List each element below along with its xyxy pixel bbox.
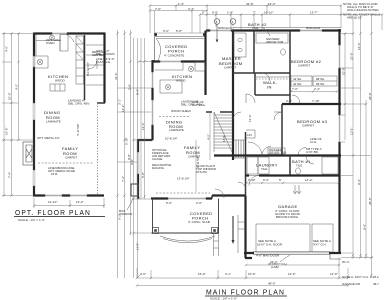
svg-text:23'-4": 23'-4" [270, 260, 278, 264]
window family bottom [168, 197, 206, 199]
fridge [60, 35, 68, 52]
svg-text:5'-0": 5'-0" [166, 201, 172, 205]
svg-text:WOOD: WOOD [55, 79, 65, 83]
svg-text:4'-2": 4'-2" [207, 134, 211, 140]
svg-text:23'-0": 23'-0" [350, 52, 354, 60]
svg-text:9'-0" CLG.: 9'-0" CLG. [192, 103, 206, 107]
dim line bottom [34, 198, 104, 208]
svg-text:4" CONC. SLAB: 4" CONC. SLAB [188, 220, 210, 224]
bottom dimension rows (main plan) [136, 256, 379, 286]
svg-text:5": 5" [279, 178, 282, 182]
svg-text:13'-8 1/4": 13'-8 1/4" [177, 177, 190, 181]
top dimension rows [149, 2, 383, 36]
svg-text:7'-4": 7'-4" [121, 176, 125, 182]
connector ticks [133, 62, 153, 234]
between-plans dimension column [96, 30, 153, 278]
svg-text:38'-0": 38'-0" [368, 197, 372, 205]
wall left (left plan) [33, 33, 35, 196]
ticks [136, 277, 349, 279]
fireplace bump [23, 142, 34, 165]
porch column dots [154, 33, 157, 36]
svg-text:LIN.: LIN. [247, 133, 253, 137]
svg-text:WOOD SHELF: WOOD SHELF [171, 109, 191, 113]
svg-text:FLAT CLG.: FLAT CLG. [96, 60, 111, 64]
svg-text:14'-0": 14'-0" [288, 272, 296, 276]
wall right upper kitchen side [103, 33, 105, 104]
connectors [118, 88, 153, 162]
hall door arcs [246, 94, 255, 103]
svg-text:LAMINATE: LAMINATE [46, 120, 61, 124]
range symbol [50, 35, 55, 40]
front walkway [214, 233, 219, 256]
svg-text:DRYER TUB: DRYER TUB [269, 151, 286, 155]
svg-text:4'-0": 4'-0" [140, 272, 146, 276]
garage corner notch [330, 254, 341, 259]
svg-text:14'-0": 14'-0" [330, 272, 338, 276]
bath2 fixtures [256, 33, 288, 43]
window top wall [52, 32, 67, 34]
door arc bed2 [292, 95, 300, 103]
window left family [137, 152, 139, 174]
stairs lower flight [234, 140, 245, 158]
svg-text:11'-6": 11'-6" [350, 128, 354, 135]
svg-text:3'-0": 3'-0" [286, 99, 292, 103]
washer note box [268, 148, 285, 154]
window bottom wall 2 [70, 194, 87, 196]
svg-text:6'-0": 6'-0" [212, 11, 218, 15]
kitchen bottom cabinets / landing [50, 84, 65, 91]
covered porch 2 [152, 199, 220, 234]
svg-text:14'-2": 14'-2" [305, 178, 313, 182]
svg-text:13'-4": 13'-4" [141, 122, 145, 130]
garage door outline 9x7 [312, 224, 333, 252]
svg-text:OPT. FLOOR PLAN: OPT. FLOOR PLAN [15, 208, 91, 217]
svg-text:CARPET: CARPET [65, 156, 77, 160]
kitchen tall cabinet column [76, 36, 84, 84]
step out family room [138, 139, 153, 141]
pantry shelving [86, 45, 104, 85]
dim lines [345, 15, 372, 278]
svg-text:CARPET: CARPET [298, 64, 310, 68]
ticks [116, 32, 131, 234]
front door arc [215, 189, 224, 198]
right bottom dims [341, 257, 373, 259]
left dimension column (main plan) [130, 38, 153, 278]
kitchen cabinets [155, 62, 183, 71]
svg-text:6'-11 5/8": 6'-11 5/8" [196, 156, 200, 168]
svg-text:16'-4": 16'-4" [357, 42, 361, 50]
svg-text:12'-10": 12'-10" [48, 200, 57, 204]
right dimension column [341, 15, 373, 278]
svg-text:9'-4": 9'-4" [363, 224, 367, 230]
wall right (main plan) [338, 29, 340, 254]
svg-text:14'-2": 14'-2" [121, 104, 125, 112]
svg-text:TILE: TILE [261, 167, 267, 171]
svg-text:31'-4": 31'-4" [114, 72, 118, 80]
stairs upper flight [214, 112, 233, 152]
garage bottom wall [244, 252, 341, 254]
arch to porch corner [66, 34, 74, 42]
ticks [3, 32, 20, 196]
svg-text:7'-10": 7'-10" [312, 99, 320, 103]
svg-text:1-38.2: 1-38.2 [370, 275, 379, 279]
svg-text:LAMINATE: LAMINATE [169, 128, 184, 132]
dashed clg line dining [159, 116, 190, 118]
svg-text:ATS-PD: ATS-PD [196, 170, 208, 174]
wall hall top [233, 72, 290, 74]
garage left wall [245, 196, 252, 258]
svg-text:68 SH: 68 SH [316, 82, 324, 86]
svg-text:3'-10": 3'-10" [248, 178, 256, 182]
kitchen/master divider [204, 31, 206, 96]
svg-text:ABOVE TUB: ABOVE TUB [266, 40, 283, 44]
section leader [232, 216, 234, 241]
dim lines [4, 33, 19, 195]
laundry door arc [248, 142, 262, 156]
svg-text:42 SH: 42 SH [293, 82, 301, 86]
svg-text:16 R.: 16 R. [222, 135, 226, 142]
dim line row3 [200, 14, 382, 16]
garage side step [238, 215, 246, 253]
window left wall dining [33, 103, 35, 120]
closet shelves bed2 [291, 76, 312, 86]
wall top (main plan) [206, 29, 341, 31]
svg-text:CARPET: CARPET [224, 66, 236, 70]
title MAIN FLOOR PLAN [205, 288, 287, 300]
svg-text:3'-1": 3'-1" [118, 99, 122, 105]
ticks [344, 32, 373, 276]
tag 1 [230, 19, 236, 25]
washer dryer [247, 157, 258, 174]
svg-text:28'-8": 28'-8" [368, 92, 372, 100]
tag 2 [214, 19, 220, 25]
svg-text:DBL. DOORS: DBL. DOORS [96, 52, 115, 56]
garage door outline 16x7 [256, 224, 310, 252]
svg-text:5'-10": 5'-10" [125, 137, 129, 145]
dim line bed2 [291, 91, 337, 93]
kitchen top wall w/ window [153, 60, 206, 62]
window master top [210, 29, 231, 31]
sink peninsula [34, 56, 48, 68]
svg-text:16 R.: 16 R. [51, 172, 58, 176]
svg-text:16'X7' O.H. DOOR: 16'X7' O.H. DOOR [257, 243, 283, 247]
svg-text:16'-4": 16'-4" [268, 2, 276, 6]
svg-text:(LAB): (LAB) [271, 265, 279, 269]
laundry top wall [214, 154, 341, 156]
kitchen island (main) [160, 80, 182, 93]
svg-text:4'-2": 4'-2" [15, 84, 19, 90]
dim line [137, 277, 348, 279]
svg-text:HIGH UNLESS NOTED: HIGH UNLESS NOTED [347, 8, 380, 12]
svg-text:2'-4": 2'-4" [314, 87, 320, 91]
svg-text:CLG.: CLG. [310, 140, 317, 144]
wall bath2 left [253, 31, 255, 74]
svg-text:WOOD: WOOD [176, 79, 186, 83]
svg-text:1'-3": 1'-3" [178, 2, 184, 6]
svg-text:42'-8": 42'-8" [246, 2, 254, 6]
window bed3 right [338, 115, 340, 142]
svg-text:16'-8": 16'-8" [5, 127, 9, 135]
bedroom3 left wall [281, 104, 283, 156]
svg-text:38.7: 38.7 [373, 282, 379, 286]
box window [131, 184, 138, 196]
svg-text:3'-7": 3'-7" [188, 7, 194, 11]
ticks [149, 4, 383, 15]
svg-text:ARE @ 16": ARE @ 16" [347, 16, 362, 20]
master bottom wall [206, 111, 233, 113]
wall right lower existing dotted [97, 103, 99, 195]
wall bottom (left plan) [33, 194, 104, 196]
svg-text:42 SH: 42 SH [293, 77, 301, 81]
notes top right [343, 2, 380, 20]
svg-text:13'-2": 13'-2" [76, 200, 84, 204]
walk-in closet bed2 [255, 73, 290, 95]
svg-text:9'-8": 9'-8" [130, 159, 134, 165]
svg-text:1'-8": 1'-8" [227, 11, 233, 15]
dashed clg line family [38, 162, 94, 164]
svg-text:2'-6": 2'-6" [196, 201, 202, 205]
wall step at pantry [97, 102, 105, 104]
svg-text:BROOM FINISH: BROOM FINISH [276, 215, 298, 219]
svg-text:9'-4": 9'-4" [357, 179, 361, 185]
main left wall [151, 60, 153, 140]
svg-text:10'-5": 10'-5" [8, 92, 12, 100]
svg-text:OPT. METAL F.P.: OPT. METAL F.P. [37, 136, 60, 140]
svg-text:4'-6": 4'-6" [5, 46, 9, 52]
dim lines [134, 38, 145, 278]
svg-text:5050 EGR.: 5050 EGR. [306, 26, 321, 30]
svg-text:5'-0": 5'-0" [163, 29, 169, 33]
window bed2 right [338, 45, 340, 68]
dim line row2 [150, 10, 207, 12]
door arc right wall [88, 60, 97, 69]
svg-text:5'-8": 5'-8" [176, 29, 182, 33]
svg-text:4'-11 5/8": 4'-11 5/8" [76, 124, 80, 136]
dashed seat line [156, 192, 210, 194]
svg-text:13'-7": 13'-7" [310, 11, 318, 15]
svg-text:W.I.C.: W.I.C. [342, 260, 350, 264]
svg-text:SCALE : 1/4" = 1'-0": SCALE : 1/4" = 1'-0" [210, 296, 237, 300]
door to garage arc [238, 182, 246, 190]
window left dining [151, 100, 153, 125]
svg-text:11'-0": 11'-0" [136, 243, 140, 250]
svg-text:5'-4": 5'-4" [136, 89, 140, 95]
svg-text:16'-10": 16'-10" [264, 11, 273, 15]
svg-text:WINDOW: WINDOW [119, 212, 132, 216]
window left wall family [33, 170, 35, 186]
svg-text:DBL. DRS. ABV.: DBL. DRS. ABV. [68, 102, 90, 106]
svg-text:3'-1": 3'-1" [225, 272, 231, 276]
porch1 edges [155, 37, 207, 62]
overall dim [137, 285, 348, 287]
svg-text:5": 5" [202, 11, 205, 15]
window bed2 top [300, 29, 322, 31]
wall top (left plan) [34, 32, 105, 34]
svg-text:9'X7' O.H.: 9'X7' O.H. [313, 243, 327, 247]
svg-text:4'-6" MAN DOOR: 4'-6" MAN DOOR [256, 254, 280, 258]
svg-text:TILE: TILE [296, 164, 302, 168]
svg-text:SCALE : 1/4" = 1'-0": SCALE : 1/4" = 1'-0" [18, 218, 45, 222]
porch step curve [160, 236, 215, 243]
svg-text:GYP. BD.: GYP. BD. [306, 150, 319, 154]
bath1 fixtures [296, 168, 301, 174]
window bottom wall 1 [45, 194, 62, 196]
svg-text:MAIN FLOOR PLAN: MAIN FLOOR PLAN [206, 288, 285, 297]
porch1 arch [156, 39, 161, 61]
left dimension column (left plan) [2, 32, 34, 196]
svg-text:9'-0": 9'-0" [263, 178, 269, 182]
kitchen interior wall [84, 35, 86, 100]
window left kitchen [151, 72, 153, 88]
laundry / bath1 divider [289, 156, 291, 176]
wall bottom family room [151, 196, 246, 199]
svg-text:10'-0": 10'-0" [248, 272, 256, 276]
window left wall kitchen [33, 56, 35, 67]
svg-text:10'-8 1/4": 10'-8 1/4" [165, 137, 178, 141]
svg-text:RAILING: RAILING [152, 166, 165, 170]
svg-text:TILE: TILE [252, 26, 258, 30]
svg-text:7'-0": 7'-0" [155, 7, 161, 11]
svg-text:CHASE: CHASE [152, 157, 162, 161]
svg-text:2'-8": 2'-8" [128, 84, 132, 90]
svg-text:7'-4": 7'-4" [8, 172, 12, 178]
ticks [132, 60, 145, 277]
dim lines [118, 30, 131, 278]
kitchen counters top [36, 35, 60, 57]
svg-text:NOTE A: 16X7 O.H.: NOTE A: 16X7 O.H. [342, 275, 369, 279]
wall bath2 right / bed2 left [289, 31, 291, 104]
svg-text:7'-0": 7'-0" [292, 87, 298, 91]
svg-text:16'-0": 16'-0" [198, 272, 206, 276]
svg-text:4" CONCRETE: 4" CONCRETE [164, 54, 184, 58]
stair well wall [245, 132, 247, 196]
svg-text:5'-8": 5'-8" [141, 172, 145, 178]
bedroom3 top wall [282, 103, 341, 105]
dim line row1 [150, 5, 341, 7]
svg-text:OVEN: OVEN [46, 41, 55, 45]
svg-text:CARPET: CARPET [302, 124, 314, 128]
svg-text:5050 EGR.: 5050 EGR. [218, 26, 233, 30]
svg-text:IN: IN [267, 85, 272, 90]
garage slope arrows [293, 185, 301, 194]
garage top wall [246, 174, 340, 176]
svg-text:GARAGE DR.: GARAGE DR. [342, 282, 361, 286]
svg-text:12'-4": 12'-4" [248, 114, 252, 122]
extension lines [150, 6, 382, 37]
svg-text:68 SH: 68 SH [316, 77, 324, 81]
master bedroom right wall [232, 31, 234, 161]
svg-text:48'-0": 48'-0" [268, 282, 276, 286]
svg-text:10'-0": 10'-0" [342, 67, 346, 75]
